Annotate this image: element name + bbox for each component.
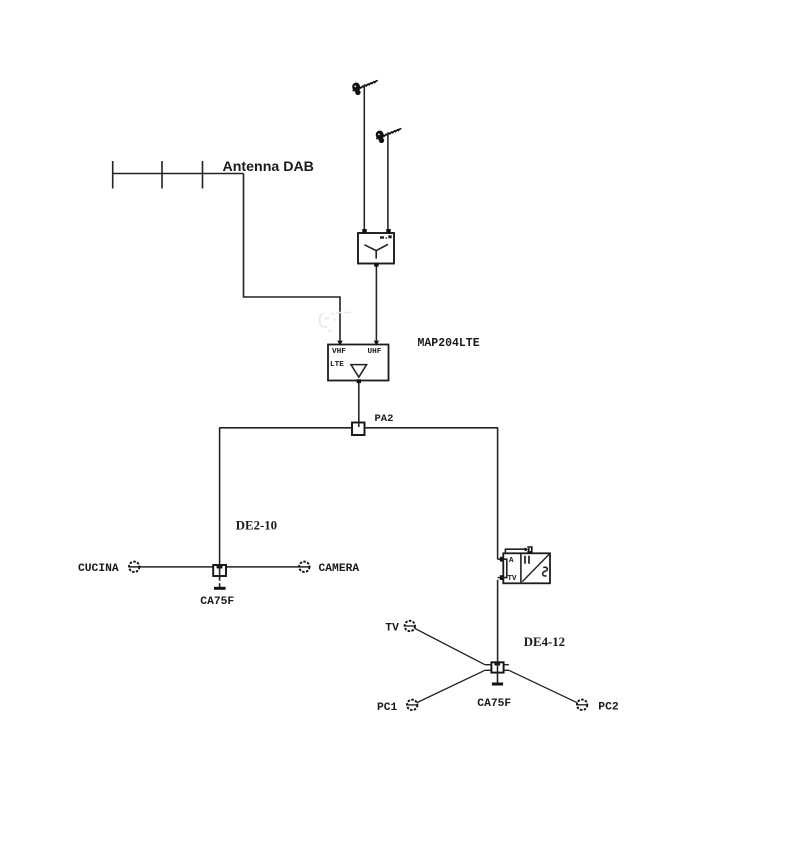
pin combiner output (filled square) xyxy=(374,263,378,267)
svg-text:CAMERA: CAMERA xyxy=(319,563,360,575)
wire outlet line CAMERA xyxy=(226,566,309,568)
svg-text:A: A xyxy=(509,557,514,565)
terminator CA75F bar (DE2-10) xyxy=(214,587,226,590)
power supply DC bars xyxy=(525,556,529,564)
antenna ANT2 UHF yagi xyxy=(375,128,401,143)
pin VHF input arrowhead xyxy=(337,341,343,346)
outlet socket PC1 (dashed circle) xyxy=(407,700,417,710)
combiner Y symbol xyxy=(365,244,389,258)
outlet socket TV (dashed circle) xyxy=(405,621,415,631)
terminator CA75F bar (DE4-12) xyxy=(492,683,503,686)
amplifier triangle symbol xyxy=(351,365,367,378)
wire DE2-10 through xyxy=(219,565,221,576)
power supply AC sine xyxy=(543,567,548,576)
wire diagonal PC2 to DE4-12 xyxy=(509,670,578,703)
wire stub DE4-12 upper-left xyxy=(485,664,492,666)
svg-text:LTE: LTE xyxy=(330,361,344,369)
pin amplifier output (filled square) xyxy=(357,379,361,383)
svg-text:Antenna DAB: Antenna DAB xyxy=(223,159,314,175)
svg-text:PA2: PA2 xyxy=(375,413,394,425)
wire mains plug lead xyxy=(505,549,524,553)
outlet socket CAMERA (dashed circle) xyxy=(299,562,309,572)
svg-text:PC2: PC2 xyxy=(598,702,619,714)
wire DAB antenna to MAP204LTE VHF input xyxy=(244,174,341,341)
antenna DAB (3-element dipole array) xyxy=(112,161,244,189)
wire power inserter to DE4-12 xyxy=(497,580,499,663)
pin ANT1 input (filled square) xyxy=(362,229,366,233)
svg-text:TV: TV xyxy=(508,575,518,583)
wire left branch down to DE2-10 xyxy=(219,427,221,565)
wire right branch down to power inserter xyxy=(497,427,499,559)
svg-text:CA75F: CA75F xyxy=(477,698,511,710)
splitter DE4-12 (tap square) xyxy=(491,662,503,672)
wire diagonal TV to DE4-12 xyxy=(415,628,485,664)
svg-text:DE2-10: DE2-10 xyxy=(236,519,277,533)
wire through PC2 socket xyxy=(577,704,587,706)
wire through PC1 socket xyxy=(407,704,417,706)
node PA2 (tap square) xyxy=(352,423,365,436)
pin UHF input arrowhead xyxy=(374,341,380,346)
faint erased ghost marks (artifact) xyxy=(320,313,351,333)
pin splitter DE2-10 top (filled) xyxy=(217,565,223,568)
mains plug symbol (coax connector) xyxy=(525,547,532,552)
wire stub DE4-12 lower-right xyxy=(504,669,509,671)
wire through TV socket xyxy=(405,625,415,627)
svg-text:CUCINA: CUCINA xyxy=(78,563,119,575)
pin ANT2 input (filled square) xyxy=(386,229,390,233)
svg-text:PC1: PC1 xyxy=(377,702,398,714)
wire stub A input xyxy=(498,558,504,560)
amplifier U2 MAP204LTE box xyxy=(328,345,389,381)
wire mast ANT2 xyxy=(387,133,389,230)
wire combiner output to MAP204LTE UHF input xyxy=(375,267,377,341)
pin splitter DE4-12 top (filled) xyxy=(495,662,501,665)
wire into PA2 xyxy=(358,423,360,427)
outlet socket PC2 (dashed circle) xyxy=(577,700,587,710)
wire amplifier output to PA2 xyxy=(358,383,360,423)
power supply diagonal xyxy=(522,554,549,582)
svg-text:TV: TV xyxy=(385,623,399,635)
wire DE4-12 through xyxy=(497,662,499,682)
wire bus right of PA2 xyxy=(365,427,498,429)
svg-text:DE4-12: DE4-12 xyxy=(524,635,565,649)
wire diagonal PC1 to DE4-12 xyxy=(417,670,485,702)
outlet socket CUCINA (dashed circle) xyxy=(129,562,139,572)
combiner U1 (mast-head amplifier box) xyxy=(358,233,394,264)
svg-text:VHF: VHF xyxy=(332,348,346,356)
pin A (filled square) xyxy=(500,557,504,562)
antenna ANT1 UHF yagi (top) xyxy=(351,80,377,95)
wire stub DE4-12 upper-right xyxy=(504,664,509,666)
wire mast ANT1 xyxy=(363,85,365,230)
wire stub DE4-12 lower-left xyxy=(485,669,492,671)
svg-text:MAP204LTE: MAP204LTE xyxy=(418,337,480,350)
combiner tiny model text xyxy=(380,235,392,238)
pin TV (filled square) xyxy=(500,575,504,580)
power inserter pass-through bracket xyxy=(504,559,507,577)
svg-text:CA75F: CA75F xyxy=(200,596,234,608)
power inserter U3 box xyxy=(503,553,550,583)
power inserter divider xyxy=(520,553,522,583)
splitter DE2-10 (tap square) xyxy=(213,565,226,576)
wire outlet line CUCINA xyxy=(129,566,213,568)
wire bus left of PA2 xyxy=(220,427,352,429)
wire DE2-10 to terminator (dashed) xyxy=(219,576,221,588)
svg-text:UHF: UHF xyxy=(368,348,382,356)
wire stub TV output xyxy=(498,577,504,579)
